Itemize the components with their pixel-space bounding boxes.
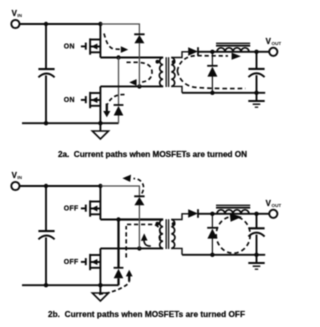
node bottom-rail / input-cap junction xyxy=(44,121,48,125)
node bottom-rail / input-cap junction xyxy=(44,283,48,287)
capacitor COUT (output capacitor) xyxy=(248,68,264,70)
svg-text:OFF: OFF xyxy=(64,259,79,266)
wire output cap upper lead xyxy=(256,214,258,228)
svg-text:ON: ON xyxy=(64,97,75,104)
node bottom-rail / Q2 source junction xyxy=(98,121,102,125)
wire node A down to clamp diode D2b xyxy=(117,220,119,268)
wire top rail to Q1 drain xyxy=(46,185,100,187)
current path loop: secondary forward current through D4 and L1 xyxy=(177,56,228,71)
node top-rail / Q1 drain junction xyxy=(98,22,102,26)
transformer primary phase dot xyxy=(156,60,160,64)
node A junction with clamp diode D2 branch xyxy=(116,55,120,59)
node return rail / output cap junction xyxy=(254,91,258,95)
node top-rail / input-cap junction xyxy=(44,184,48,188)
transistor Q2 lower MOSFET xyxy=(81,99,86,101)
current path loop: freewheel current circle through D3 and L1 xyxy=(216,216,250,253)
wire through inductor to output node xyxy=(212,213,256,215)
transformer T1 core xyxy=(165,57,167,87)
diode D1b (clamp, cathode up at top rail) xyxy=(134,195,144,197)
wire node A (Q1 source to transformer primary top) xyxy=(100,57,163,59)
wire node A down to clamp diode D2 xyxy=(118,58,120,105)
wire D1 anode down to node B xyxy=(138,43,140,87)
wire output cap lower lead xyxy=(256,75,258,93)
svg-text:IN: IN xyxy=(17,175,22,180)
terminal VIN (input supply) xyxy=(11,20,19,28)
node rectifier / freewheel diode junction xyxy=(210,212,214,216)
ground primary-side xyxy=(99,285,101,293)
node return rail / output cap junction xyxy=(254,253,258,257)
transformer T1b core xyxy=(165,219,167,249)
wire rectifier output to inductor node xyxy=(198,213,212,215)
diode D3b (freewheel) branch wire xyxy=(211,214,213,228)
wire top rail from VIN to input cap node xyxy=(20,185,47,187)
svg-text:OUT: OUT xyxy=(272,203,282,208)
wire input cap upper lead xyxy=(45,186,47,230)
wire Q2b drain bus xyxy=(99,248,101,285)
transformer T1b primary winding xyxy=(159,220,163,249)
ground secondary-side (earth) xyxy=(256,93,258,101)
svg-text:ON: ON xyxy=(64,43,75,50)
transformer T1 secondary winding xyxy=(171,58,175,87)
diode D3 (freewheel) branch wire xyxy=(211,52,213,66)
node rectifier / freewheel diode junction xyxy=(210,50,214,54)
wire input cap upper lead xyxy=(45,24,47,68)
diode D1 (clamp, cathode up at top rail) xyxy=(134,33,144,35)
wire bottom rail (primary return) xyxy=(22,284,119,286)
wire input cap lower lead xyxy=(45,75,47,123)
wire D3 anode to secondary return rail xyxy=(211,76,213,92)
transistor Q2b lower MOSFET xyxy=(81,261,86,263)
diode D4b (forward rectifier) xyxy=(188,209,198,218)
wire secondary top lead to rectifier diode xyxy=(171,52,188,58)
terminal VINb (input supply) xyxy=(11,182,19,190)
wire node B (Q2 drain to transformer primary bottom) xyxy=(100,247,163,249)
transformer T1b secondary winding xyxy=(171,220,175,249)
terminal VOUT (output) xyxy=(257,51,270,53)
node bottom-rail / Q2 source junction xyxy=(98,283,102,287)
wire secondary bottom lead xyxy=(171,86,182,92)
transformer secondary phase dot xyxy=(172,222,176,226)
wire input cap lower lead xyxy=(45,237,47,285)
node A junction with clamp diode D2 branch xyxy=(116,217,120,221)
transformer primary phase dot xyxy=(156,222,160,226)
wire node A (Q1 source to transformer primary top) xyxy=(100,219,118,221)
current path loop: primary magnetizing (arrow left at node B) xyxy=(127,62,153,82)
wire top rail extension to clamp diode D1 xyxy=(100,186,139,196)
wire D3 anode to secondary return rail xyxy=(211,238,213,254)
capacitor CIN (input bulk capacitor) xyxy=(38,68,54,70)
svg-text:OFF: OFF xyxy=(64,205,79,212)
transformer T1 primary winding xyxy=(159,58,163,87)
svg-text:2b. Current paths when MOSFET: 2b. Current paths when MOSFETs are turne… xyxy=(48,310,245,319)
current path arrow: magnetizing current curl (up) inside primary loop xyxy=(144,238,151,246)
wire D2 anode to bottom rail xyxy=(118,116,120,124)
wire top rail to Q1 drain xyxy=(46,23,100,25)
transistor Q1 upper MOSFET xyxy=(81,45,86,47)
diode D3b (freewheel, cathode up) xyxy=(207,227,217,229)
capacitor COUTb (output capacitor) xyxy=(248,227,264,229)
diode D3 (freewheel, cathode up) xyxy=(207,65,217,67)
transformer secondary phase dot xyxy=(172,60,176,64)
node top-rail / Q1 drain junction xyxy=(98,184,102,188)
node output / V_OUT junction xyxy=(254,50,258,54)
wire secondary top lead to rectifier diode xyxy=(171,214,188,220)
node output / V_OUT junction xyxy=(254,212,258,216)
wire Q2 drain bus xyxy=(99,86,101,123)
node B junction with clamp diode D1 branch xyxy=(137,246,141,250)
ground secondary-side (earth) xyxy=(256,255,258,263)
current path arrow: through Q1 into node A xyxy=(104,34,121,50)
wire output cap lower lead xyxy=(256,235,258,255)
inductor L1b (output choke) xyxy=(217,210,249,214)
node return rail / D3 junction xyxy=(210,253,214,257)
ground primary-side xyxy=(99,123,101,131)
inductor L1 (output choke) xyxy=(217,48,249,52)
current path arrow: clamp current into top rail via D1 xyxy=(134,179,144,194)
wire bottom rail (primary return) xyxy=(22,122,119,124)
wire top rail from VIN to input cap node xyxy=(20,23,47,25)
svg-text:IN: IN xyxy=(17,13,22,18)
svg-text:2a. Current paths when MOSFET: 2a. Current paths when MOSFETs are turne… xyxy=(58,150,247,159)
current path arrow: up through clamp diode D2 xyxy=(99,281,129,294)
current path loop: primary reset current beside D2 branch xyxy=(125,226,127,258)
transistor Q1b upper MOSFET xyxy=(81,207,86,209)
wire Q1 drain bus xyxy=(99,24,101,58)
diode D2b (clamp, cathode up) xyxy=(114,267,124,269)
node top-rail / input-cap junction xyxy=(44,22,48,26)
svg-text:OUT: OUT xyxy=(272,41,282,46)
wire through inductor to output node xyxy=(212,51,256,53)
wire top rail extension to clamp diode D1 xyxy=(100,24,139,34)
node return rail / D3 junction xyxy=(210,91,214,95)
diode D4 (forward rectifier) xyxy=(188,47,198,56)
wire node B (Q2 drain to transformer primary bottom) xyxy=(100,85,163,87)
current path arrow: down through Q2 to ground xyxy=(108,95,125,104)
diode D2 (clamp, cathode up) xyxy=(114,104,124,106)
node B junction with clamp diode D1 branch xyxy=(137,84,141,88)
terminal VOUTb (output) xyxy=(257,213,270,215)
wire D2 anode to bottom rail xyxy=(117,278,119,285)
wire Q1b drain bus xyxy=(99,186,101,220)
wire secondary return rail xyxy=(182,254,265,256)
capacitor CINb (input bulk capacitor) xyxy=(38,230,54,232)
wire secondary bottom lead xyxy=(171,248,182,254)
wire output cap upper lead xyxy=(256,52,258,68)
wire secondary return rail xyxy=(182,92,265,94)
wire rectifier output to inductor node xyxy=(198,51,212,53)
wire D1 anode down to node B xyxy=(138,205,140,249)
